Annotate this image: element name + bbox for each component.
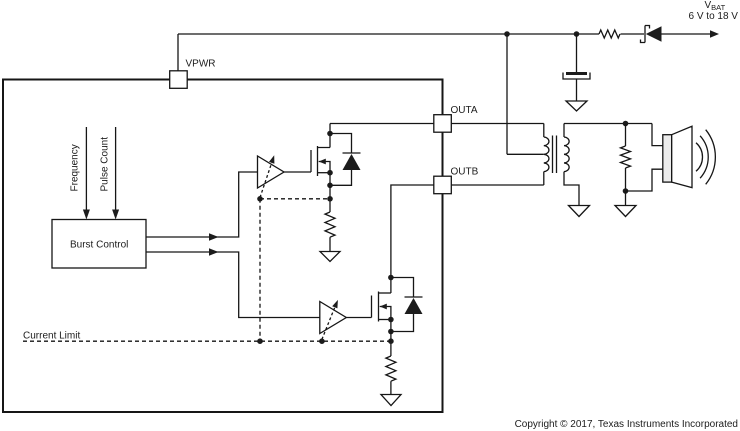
wire secondary top to speaker <box>564 123 652 125</box>
node dot D2 anode junction <box>388 329 394 335</box>
op-amp gate driver U1 (upper) <box>258 156 285 188</box>
wire capacitor to ground <box>576 79 578 101</box>
node dot R2 bottom <box>623 188 629 194</box>
node dot R2 top <box>623 121 629 127</box>
node dot (U2 adjust on current limit line) <box>319 338 325 344</box>
node dot M2 drain/diode <box>388 275 394 281</box>
signal Pulse Count arrow into Burst Control <box>112 127 119 220</box>
node junction dot (center-tap drop) <box>504 31 510 37</box>
transformer T1 core <box>553 136 557 174</box>
wire bottom to speaker terminal <box>626 169 663 191</box>
wire R2 bottom to ground <box>625 191 627 206</box>
wire drop to capacitor <box>576 34 578 72</box>
resistor R3 <box>386 356 396 381</box>
signal Frequency arrow into Burst Control <box>83 127 90 220</box>
pin OUTB <box>434 176 452 194</box>
wire OUTA pin to transformer <box>451 123 544 125</box>
transformer T1 secondary winding <box>564 137 569 172</box>
transformer T1 primary lead top <box>543 124 545 138</box>
wire R3 to ground <box>390 381 392 394</box>
resistor R4 (series in VBAT feed) <box>599 30 620 38</box>
wire U1 output to M1 gate <box>284 171 311 173</box>
wire R1 to ground <box>329 237 331 251</box>
dashed wire Current Limit <box>23 340 391 342</box>
node dot M2 source <box>388 317 394 323</box>
wire Burst Control output A <box>146 172 258 237</box>
block Burst Control <box>52 220 146 269</box>
svg-text:OUTB: OUTB <box>451 167 479 178</box>
transistor M2 (lower NMOS) <box>372 292 391 322</box>
svg-text:OUTA: OUTA <box>451 105 478 116</box>
wire center tap horizontal <box>507 153 544 155</box>
resistor R2 <box>621 124 631 192</box>
ground GND3 <box>381 395 401 406</box>
transistor M1 (upper NMOS) <box>311 124 330 177</box>
wire rail segment 2 <box>621 33 645 35</box>
pin OUTA <box>434 115 452 133</box>
node dot (dashed junction on current limit line) <box>257 338 263 344</box>
node dot M1 source <box>327 170 333 176</box>
ground GND2 <box>320 252 340 262</box>
node dot M1 drain/diode <box>327 131 333 137</box>
svg-text:Current Limit: Current Limit <box>23 331 80 342</box>
dashed wire vertical to current limit line <box>259 199 261 341</box>
wire M2 source down to R3 <box>390 320 392 357</box>
wire M1 drain to OUTA pin <box>330 123 434 125</box>
svg-text:6 V to 18 V: 6 V to 18 V <box>689 11 739 22</box>
transformer T1 secondary lead bottom to ground <box>564 172 579 206</box>
IC boundary box <box>3 80 443 413</box>
wire Burst Control output B <box>146 252 320 318</box>
wire M1 source down to R1 <box>329 173 331 212</box>
dashed wire horizontal to M1 source <box>260 198 330 200</box>
wire rail segment 3 to VBAT <box>662 33 712 35</box>
ground GND4 <box>569 206 590 217</box>
wire top VPWR rail segment 1 <box>178 33 599 35</box>
transformer T1 primary winding <box>544 137 549 172</box>
arrowhead to VBAT terminal <box>710 30 719 37</box>
wire OUTB pin to M2 drain <box>391 185 434 293</box>
speaker LS1 body <box>663 135 672 182</box>
svg-text:Burst Control: Burst Control <box>70 240 128 251</box>
U2 adjustment arrow (dashed, to current limit) <box>322 300 338 340</box>
svg-text:Copyright © 2017, Texas Instru: Copyright © 2017, Texas Instruments Inco… <box>515 419 738 430</box>
svg-text:VPWR: VPWR <box>186 59 216 70</box>
diode D1 (M1 body diode) <box>330 134 361 186</box>
capacitor C1 (polarized) <box>563 72 590 79</box>
svg-text:Frequency: Frequency <box>70 144 81 191</box>
transformer T1 secondary lead top <box>563 124 565 138</box>
arrowhead output A <box>209 233 219 240</box>
node dot current-limit sense (upper) <box>327 196 333 202</box>
wire U2 output to M2 gate <box>346 317 371 319</box>
arrowhead output B <box>209 248 219 255</box>
pin VPWR <box>170 71 188 89</box>
wire OUTB pin to transformer <box>451 184 544 186</box>
resistor R1 <box>325 212 335 237</box>
svg-text:Pulse Count: Pulse Count <box>100 137 111 192</box>
node dot (U1 adjust / dashed junction) <box>257 196 263 202</box>
node junction dot (capacitor drop) <box>574 31 580 37</box>
wire drop to transformer center tap <box>506 34 508 154</box>
transformer T1 primary lead bottom <box>543 172 545 185</box>
speaker sound waves <box>696 130 715 185</box>
ground GND1 <box>566 101 587 111</box>
speaker LS1 cone <box>672 126 692 187</box>
schottky diode D4 <box>641 26 662 43</box>
diode D2 (M2 body diode) <box>391 278 423 332</box>
ground GND5 <box>615 206 636 217</box>
node dot D1 anode junction <box>327 183 333 189</box>
wire top to speaker terminal <box>652 124 663 146</box>
wire VPWR pin up to top rail <box>177 34 179 71</box>
op-amp gate driver U2 (lower) <box>320 302 347 334</box>
U1 adjustment arrow (dashed, to current limit) <box>260 155 274 197</box>
node dot current-limit sense (lower) <box>388 338 394 344</box>
